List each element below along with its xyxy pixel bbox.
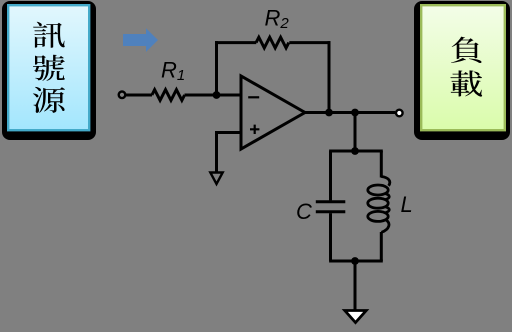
wire R1 to node A: [185, 94, 217, 97]
label 訊: [33, 22, 65, 48]
op-amp plus sign: [250, 125, 259, 134]
wire tank top rail: [329, 150, 383, 153]
wire inductor top lead: [380, 151, 383, 178]
load box: [421, 5, 505, 130]
wire feedback left vertical: [215, 41, 218, 97]
node A: [213, 91, 221, 99]
ground 2 (tank bottom): [345, 311, 366, 323]
resistor R2: [256, 37, 289, 48]
signal source box shadow: [2, 1, 96, 140]
wire feedback top right: [289, 41, 330, 44]
input terminal: [119, 92, 126, 99]
label 號: [33, 55, 65, 81]
resistor R1: [152, 90, 185, 101]
node D tank top: [351, 147, 359, 155]
wire feedback right vertical: [328, 41, 331, 112]
capacitor C bottom plate: [316, 210, 346, 213]
wire tank stem: [354, 113, 357, 152]
wire feedback top left: [215, 41, 256, 44]
wire op-amp noninverting input: [217, 133, 242, 173]
signal flow arrow: [123, 28, 158, 52]
load box shadow: [414, 1, 510, 140]
inductor L coil: [368, 185, 388, 195]
svg-text:C: C: [296, 199, 312, 224]
wire tank bottom rail: [329, 260, 383, 263]
op-amp minus sign: [248, 96, 259, 98]
op-amp U1: [241, 76, 305, 149]
label 源: [33, 87, 65, 113]
svg-text:L: L: [401, 192, 413, 217]
node E tank bottom: [351, 257, 359, 265]
label 載: [450, 70, 482, 96]
wire inductor bottom lead: [380, 232, 383, 261]
output terminal: [396, 110, 403, 117]
wire capacitor top lead: [329, 151, 332, 200]
wire capacitor bottom lead: [329, 213, 332, 261]
wire node A to op-amp inverting input: [217, 94, 242, 97]
label 負: [451, 37, 482, 63]
wire input to R1: [125, 94, 152, 97]
node B feedback-output junction: [325, 109, 333, 117]
node C output-tank junction: [351, 109, 359, 117]
wire op-amp output: [305, 111, 395, 114]
wire ground stem: [354, 261, 357, 310]
ground 1 (op-amp plus input): [210, 173, 222, 185]
capacitor C top plate: [316, 200, 346, 203]
